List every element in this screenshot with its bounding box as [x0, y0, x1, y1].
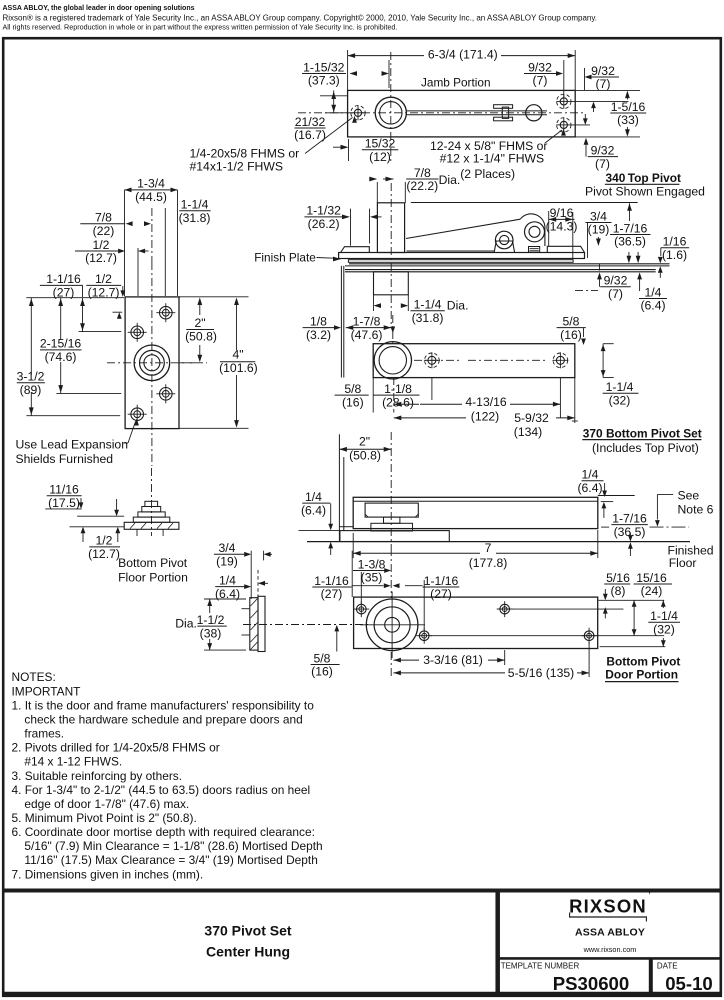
door portion dims left	[351, 551, 353, 597]
hole left extension	[56, 392, 121, 394]
svg-text:1-1/4: 1-1/4	[650, 609, 678, 623]
svg-text:(8): (8)	[611, 584, 626, 598]
floor plate center hole middle	[140, 350, 165, 375]
svg-text:1/4: 1/4	[582, 468, 599, 482]
plate top extension right	[179, 296, 249, 298]
svg-text:(37.3): (37.3)	[308, 74, 340, 88]
svg-text:2": 2"	[194, 316, 205, 330]
dimension 1-1/4 (31.8) plate	[179, 198, 211, 225]
svg-text:05-10: 05-10	[665, 973, 713, 994]
svg-text:’: ’	[649, 891, 651, 902]
svg-text:Use Lead Expansion: Use Lead Expansion	[16, 437, 128, 451]
floor portion base hatches	[130, 523, 135, 529]
svg-text:1-7/8: 1-7/8	[353, 314, 381, 328]
dimension 1-3/8 (35)	[353, 557, 386, 584]
jamb plate centerline horizontal	[298, 112, 583, 114]
door portion bearing outer	[366, 599, 418, 651]
svg-text:#14 x 1-12 FHWS.: #14 x 1-12 FHWS.	[24, 755, 122, 769]
plate top extension line left	[26, 297, 124, 299]
svg-text:5/16: 5/16	[606, 571, 630, 585]
svg-text:5-5/16 (135): 5-5/16 (135)	[508, 666, 574, 680]
svg-text:370 Bottom Pivot Set: 370 Bottom Pivot Set	[583, 426, 702, 440]
dimension 1-7/16 (36.5) right	[611, 511, 647, 538]
svg-text:(19): (19)	[216, 555, 238, 569]
svg-text:1-7/16: 1-7/16	[612, 511, 647, 525]
svg-text:(101.6): (101.6)	[219, 361, 258, 375]
dimension 1-15/32 (37.3)	[302, 60, 346, 87]
svg-text:(Includes Top Pivot): (Includes Top Pivot)	[592, 441, 699, 455]
svg-text:1-3/4: 1-3/4	[137, 177, 165, 191]
svg-text:1/2: 1/2	[95, 272, 112, 286]
340 plate right end cap	[547, 246, 584, 252]
svg-text:(7): (7)	[608, 287, 623, 301]
svg-text:(31.8): (31.8)	[179, 211, 211, 225]
svg-text:(177.8): (177.8)	[469, 556, 508, 570]
svg-text:(1.6): (1.6)	[662, 248, 687, 262]
floor plate center hole outer	[134, 345, 170, 381]
svg-text:PS30600: PS30600	[553, 973, 630, 994]
svg-text:1/16: 1/16	[663, 235, 687, 249]
dimension 15/32 (12)	[362, 137, 399, 164]
dimension 1/4 (6.4) door top right	[577, 468, 603, 495]
svg-text:(28.6): (28.6)	[382, 395, 414, 409]
dimension 9/32 (7) mid	[600, 274, 631, 301]
svg-text:IMPORTANT: IMPORTANT	[12, 684, 81, 698]
svg-text:(12): (12)	[369, 150, 391, 164]
svg-text:1-1/4: 1-1/4	[181, 198, 209, 212]
svg-text:(27): (27)	[321, 587, 343, 601]
svg-text:9/32: 9/32	[591, 64, 615, 78]
dimension 7/8 (22.2)	[406, 166, 438, 193]
svg-text:9/32: 9/32	[604, 274, 628, 288]
svg-text:1/4-20x5/8 FHMS or: 1/4-20x5/8 FHMS or	[190, 146, 300, 160]
floor portion base bottom extension	[70, 526, 125, 528]
spindle body	[250, 598, 258, 650]
svg-text:4-13/16: 4-13/16	[465, 395, 507, 409]
spindle dashed edge	[257, 570, 259, 596]
340 plate left end cap	[341, 247, 370, 253]
svg-text:Dia.: Dia.	[447, 299, 469, 313]
floor plate centerline	[151, 262, 153, 466]
dimension 1/4 (6.4) floor left	[301, 490, 330, 517]
svg-text:DATE: DATE	[657, 962, 678, 971]
svg-text:1-1/4: 1-1/4	[606, 380, 634, 394]
floor portion steps	[133, 517, 170, 522]
svg-text:(3.2): (3.2)	[306, 328, 331, 342]
door top right tick arrow	[601, 501, 613, 503]
dimension 1/8 (3.2)	[303, 314, 335, 341]
dimension 15/16 (24)	[634, 571, 673, 598]
340 door top line	[345, 269, 656, 271]
door portion centerline bottom extension	[390, 652, 392, 676]
svg-text:All rights reserved. Reproduct: All rights reserved. Reproduction in who…	[3, 22, 398, 31]
svg-text:15/16: 15/16	[636, 571, 667, 585]
dimension 1-1/4 (32) plan right	[603, 380, 639, 407]
screw bobbin body	[502, 107, 508, 118]
svg-text:9/32: 9/32	[528, 60, 552, 74]
svg-text:1/4: 1/4	[645, 285, 662, 299]
dimension 9/32 (7) jamb top middle	[524, 60, 556, 87]
svg-text:ASSA ABLOY: ASSA ABLOY	[575, 926, 645, 938]
dim 3-1/2 (89)	[30, 298, 32, 375]
svg-text:Shields Furnished: Shields Furnished	[16, 452, 114, 466]
340 valve block	[529, 247, 540, 253]
svg-text:1-15/32: 1-15/32	[303, 60, 345, 74]
door bottom outline	[353, 497, 598, 528]
dimension 1/2 (12.7) plate	[75, 238, 118, 265]
svg-text:1-1/2: 1-1/2	[197, 613, 225, 627]
plate center extension right	[179, 362, 207, 364]
door portion screw right	[584, 631, 594, 641]
dimension 1-1/16 (27) plate	[40, 272, 83, 299]
floor portion base top extension	[77, 515, 124, 517]
RIXSON underline	[569, 916, 647, 918]
svg-text:7/8: 7/8	[95, 211, 112, 225]
svg-text:(24): (24)	[641, 584, 663, 598]
svg-text:frames.: frames.	[24, 727, 64, 741]
floor portion hidden lines	[136, 529, 138, 536]
svg-text:11/16: 11/16	[49, 483, 79, 497]
svg-text:(31.8): (31.8)	[412, 311, 444, 325]
bottom pivot bearing inner	[379, 347, 406, 374]
svg-text:(36.5): (36.5)	[614, 235, 646, 249]
svg-text:5/16" (7.9) Min Clearance = 1-: 5/16" (7.9) Min Clearance = 1-1/8" (28.6…	[24, 839, 322, 853]
svg-text:1-5/16: 1-5/16	[611, 100, 646, 114]
bottom pivot floor portion centerline	[151, 468, 153, 536]
dimension 1-1/2 (38)	[197, 613, 227, 640]
dimension 1-7/16 (36.5) top	[610, 221, 651, 248]
spindle centerline	[243, 624, 370, 626]
floor plate hole left	[131, 326, 144, 339]
dimension 1/16 (1.6)	[661, 235, 689, 262]
svg-text:check the hardware schedule an: check the hardware schedule and prepare …	[24, 712, 302, 726]
svg-text:www.rixson.com: www.rixson.com	[583, 945, 637, 954]
svg-text:(6.4): (6.4)	[640, 299, 665, 313]
plan centerline horizontal dashes	[414, 359, 460, 361]
svg-text:(33): (33)	[617, 113, 639, 127]
title block bottom thick border	[3, 992, 721, 997]
floor plate hole bottom right	[160, 388, 173, 401]
svg-text:Center Hung: Center Hung	[206, 943, 290, 959]
title block horizontal divider	[498, 957, 721, 960]
svg-text:(7): (7)	[596, 77, 611, 91]
dim 1-1/16 left	[82, 286, 84, 297]
svg-text:1/2: 1/2	[96, 534, 113, 548]
svg-text:Finish Plate: Finish Plate	[254, 250, 316, 264]
svg-text:Rixson® is a registered tradem: Rixson® is a registered trademark of Yal…	[3, 13, 597, 22]
svg-text:(44.5): (44.5)	[135, 190, 167, 204]
svg-text:340 Top Pivot: 340 Top Pivot	[606, 171, 682, 185]
svg-text:1-3/8: 1-3/8	[358, 557, 386, 571]
svg-text:(74.6): (74.6)	[45, 350, 77, 364]
dimension 1-5/16 (33)	[610, 100, 646, 127]
svg-text:edge of door 1-7/8" (47.6) max: edge of door 1-7/8" (47.6) max.	[24, 797, 189, 811]
svg-text:1-1/16: 1-1/16	[424, 574, 459, 588]
dim 2-15/16 (74.6)	[60, 298, 62, 340]
svg-text:4. For 1-3/4" to 2-1/2" (44.5: 4. For 1-3/4" to 2-1/2" (44.5 to 63.5) d…	[12, 783, 311, 797]
dimension arrows 1-5/16	[625, 91, 630, 99]
340 roller mount	[494, 241, 514, 253]
screw bobbin bottom plate	[494, 117, 513, 121]
door portion centerline top	[390, 548, 392, 598]
bottom pivot base block	[371, 523, 413, 531]
dimension 9/32 (7) jamb top right	[587, 64, 619, 91]
door portion top edge extension	[599, 599, 665, 601]
door portion bearing inner	[385, 617, 400, 632]
svg-text:(7): (7)	[595, 157, 610, 171]
floor plate hole bottom left	[131, 408, 144, 421]
svg-text:1-1/32: 1-1/32	[306, 204, 341, 218]
door portion bearing middle	[374, 607, 410, 643]
svg-text:3/4: 3/4	[590, 209, 607, 223]
dimension 5/16 (8)	[604, 571, 630, 598]
svg-text:See: See	[678, 489, 700, 503]
3/4 bracket and arrow	[587, 223, 589, 259]
door portion screw right of bearing	[419, 631, 429, 641]
340 arm bottom line	[407, 250, 495, 252]
bottom pivot mortised body	[365, 503, 418, 517]
svg-text:(47.6): (47.6)	[351, 328, 383, 342]
svg-text:(35): (35)	[361, 571, 383, 585]
340 arm diagonal	[406, 219, 520, 238]
svg-text:12-24 x 5/8" FHMS or: 12-24 x 5/8" FHMS or	[430, 139, 547, 153]
svg-text:ASSA ABLOY, the global leader: ASSA ABLOY, the global leader in door op…	[3, 5, 195, 12]
spindle flange	[258, 596, 265, 651]
dimension 1-1/4 (32) door portion	[648, 609, 680, 636]
dimension 3-3/16 (81)	[393, 659, 419, 661]
svg-text:(22.2): (22.2)	[406, 179, 438, 193]
svg-text:Dia.: Dia.	[439, 173, 461, 187]
dimension arrow 21/32	[333, 90, 335, 112]
svg-text:370 Pivot Set: 370 Pivot Set	[204, 923, 291, 939]
dim 1/2 upper right	[113, 311, 123, 313]
plate bottom extension right	[179, 427, 249, 429]
svg-text:5. Minimum Pivot Point is 2" (: 5. Minimum Pivot Point is 2" (50.8).	[12, 811, 197, 825]
svg-text:3. Suitable reinforcing by oth: 3. Suitable reinforcing by others.	[12, 769, 183, 783]
svg-text:(12.7): (12.7)	[88, 547, 120, 561]
door portion bottom edge extension	[600, 646, 666, 648]
svg-text:2. Pivots drilled for 1/4-20x5: 2. Pivots drilled for 1/4-20x5/8 FHMS or	[12, 741, 220, 755]
dash line door bottom right	[601, 526, 609, 528]
jamb plate outline	[348, 90, 576, 136]
svg-text:Bottom Pivot: Bottom Pivot	[118, 556, 188, 570]
svg-text:(32): (32)	[653, 623, 675, 637]
dimension 2-15/16 (74.6)	[40, 337, 82, 364]
bottom pivot body corner steps	[365, 514, 368, 517]
finished floor line	[307, 541, 690, 543]
dimension 1/2 (12.7) floor portion	[88, 534, 120, 561]
dimension 1-1/16 (27) left	[312, 574, 351, 601]
screw bobbin top plate	[494, 105, 513, 109]
svg-text:6. Coordinate door mortise dep: 6. Coordinate door mortise depth with re…	[12, 825, 315, 839]
dimension 21/32 (16.7)	[294, 115, 326, 142]
svg-text:(16.7): (16.7)	[294, 128, 326, 142]
svg-text:1-1/8: 1-1/8	[384, 382, 412, 396]
bottom pivot set plate	[373, 344, 575, 378]
svg-text:#12 x 1-1/4" FHWS: #12 x 1-1/4" FHWS	[440, 152, 545, 166]
pivot shaft	[406, 110, 547, 112]
dimension 1-1/4 (31.8)	[411, 298, 445, 325]
svg-text:(27): (27)	[430, 587, 452, 601]
340 roller small	[495, 231, 513, 249]
svg-text:Jamb Portion: Jamb Portion	[421, 76, 491, 90]
svg-text:Dia.: Dia.	[175, 616, 197, 630]
dimension 1-1/16 (27) mid	[423, 574, 460, 601]
svg-text:(89): (89)	[20, 383, 42, 397]
svg-text:(7): (7)	[533, 74, 548, 88]
floor plate center hole inner	[144, 355, 160, 371]
1-1/32 extension and arrows	[350, 209, 352, 246]
dimension 5/8 (16) plan bottom left	[335, 382, 369, 409]
svg-text:15/32: 15/32	[365, 137, 396, 151]
svg-text:(16): (16)	[560, 328, 582, 342]
svg-text:5/8: 5/8	[344, 382, 361, 396]
svg-text:7. Dimensions given in inches: 7. Dimensions given in inches (mm).	[12, 867, 204, 881]
jamb plate centerline vertical through pivot circle	[390, 52, 392, 162]
svg-text:(6.4): (6.4)	[577, 481, 602, 495]
plate bottom-left hole extension	[26, 415, 120, 417]
svg-text:Floor: Floor	[669, 556, 697, 570]
jamb plate bottom edge extension right	[575, 136, 640, 138]
340 frame edge lines	[340, 266, 342, 378]
pivot bearing circle inner	[380, 102, 402, 124]
340 door pivot body	[374, 272, 409, 295]
leader line 1/4-20 screws to left screw	[305, 118, 353, 154]
340 door section break dash	[575, 289, 598, 291]
svg-text:Pivot Shown Engaged: Pivot Shown Engaged	[585, 184, 705, 198]
dimension 1-1/32 (26.2)	[304, 204, 342, 231]
jamb screw extension lines right	[572, 100, 629, 102]
template number cell divider	[649, 958, 653, 994]
svg-text:7/8: 7/8	[414, 166, 431, 180]
svg-text:3-3/16 (81): 3-3/16 (81)	[423, 653, 483, 667]
340 finish plate surface extension	[349, 263, 670, 265]
left screw dashed circle	[351, 106, 365, 120]
door portion screw top left	[357, 604, 367, 614]
svg-text:Door Portion: Door Portion	[605, 667, 678, 681]
pivot bearing circle outer	[375, 97, 406, 128]
svg-text:3/4: 3/4	[219, 541, 236, 555]
dimension 1/2 (12.7) plate 2	[86, 272, 121, 299]
dimension 11/16 (17.5)	[47, 483, 82, 510]
340 post top extension line	[411, 202, 638, 204]
svg-text:(50.8): (50.8)	[349, 449, 381, 463]
shaft collar circle	[526, 105, 542, 121]
plate centerline upper dash	[151, 208, 153, 262]
svg-text:(16): (16)	[342, 395, 364, 409]
floor plate center hole crosshair	[107, 362, 196, 364]
svg-text:5/8: 5/8	[563, 314, 580, 328]
340 finish plate	[348, 260, 573, 263]
spindle detail verticals	[250, 551, 252, 599]
svg-text:1/4: 1/4	[305, 490, 322, 504]
svg-text:3-1/2: 3-1/2	[17, 370, 45, 384]
leader line 12-24 screws to right screw	[545, 130, 562, 143]
svg-text:7: 7	[485, 541, 492, 555]
plan vertical centerline top	[392, 315, 394, 345]
dimension 1/4 (6.4) spindle	[215, 573, 246, 600]
svg-text:(32): (32)	[609, 394, 631, 408]
svg-text:#14x1-1/2 FHWS: #14x1-1/2 FHWS	[190, 159, 283, 173]
dimension 5/8 (16) plan top right	[557, 314, 586, 341]
svg-text:5/8: 5/8	[314, 651, 331, 665]
plan screw 1	[428, 356, 436, 364]
svg-text:RIXSON: RIXSON	[569, 895, 647, 916]
svg-text:1/4: 1/4	[219, 573, 236, 587]
dimension 5-5/16 (135)	[393, 672, 505, 674]
340 jamb post	[377, 203, 404, 253]
plan screw 2	[556, 356, 564, 364]
340 arm arc over roller	[520, 214, 545, 246]
right screw hole upper	[560, 98, 567, 105]
svg-text:(17.5): (17.5)	[48, 496, 80, 510]
dimension 9/32 (7) jamb lower right	[588, 143, 618, 170]
spindle extension lines	[376, 182, 378, 203]
svg-text:5-9/32: 5-9/32	[514, 411, 549, 425]
svg-text:11/16" (17.5) Max Clearance =: 11/16" (17.5) Max Clearance = 3/4" (19) …	[24, 853, 317, 867]
svg-text:(22): (22)	[93, 224, 115, 238]
jamb plate top edge extension right	[575, 89, 640, 91]
spindle ticks	[242, 608, 251, 610]
dimension 5/8 (16) spindle right	[311, 651, 340, 678]
svg-text:1. It is the door and frame ma: 1. It is the door and frame manufacturer…	[12, 698, 315, 712]
dimension 3/4 (19) spindle	[214, 541, 244, 568]
dimension 1-3/4 (44.5)	[125, 177, 178, 204]
door portion screw middle	[500, 604, 510, 614]
svg-text:(134): (134)	[514, 425, 542, 439]
spindle body hatches	[251, 599, 258, 607]
svg-text:(38): (38)	[200, 626, 222, 640]
svg-text:(16): (16)	[311, 665, 333, 679]
bottom pivot spindle	[384, 517, 400, 523]
svg-text:1/2: 1/2	[93, 238, 110, 252]
svg-text:TEMPLATE NUMBER: TEMPLATE NUMBER	[501, 962, 580, 971]
svg-text:1-1/16: 1-1/16	[314, 574, 349, 588]
bottom pivot bearing outer	[374, 342, 411, 379]
svg-text:Note 6: Note 6	[678, 502, 714, 516]
dimension 3-1/2 (89)	[17, 370, 45, 397]
svg-text:1-1/4: 1-1/4	[414, 298, 442, 312]
dimension 1-7/8 (47.6)	[346, 314, 391, 341]
floor plate outline	[125, 297, 179, 429]
door portion bearing crosshair	[360, 624, 425, 626]
dimension 9/16 (14.3)	[546, 206, 578, 233]
frame bottom line	[339, 526, 353, 528]
svg-text:(122): (122)	[471, 410, 499, 424]
svg-text:(50.8): (50.8)	[185, 330, 217, 344]
svg-text:(19): (19)	[588, 223, 610, 237]
svg-text:9/32: 9/32	[591, 143, 615, 157]
svg-text:(26.2): (26.2)	[308, 217, 340, 231]
svg-text:(6.4): (6.4)	[301, 503, 326, 517]
plan centerline bottom extension	[393, 377, 395, 413]
svg-text:1/8: 1/8	[310, 314, 327, 328]
dimension 1-1/8 (28.6)	[373, 382, 419, 409]
door bottom inner top line	[353, 500, 598, 502]
svg-text:1-7/16: 1-7/16	[613, 221, 648, 235]
title block top border	[3, 889, 721, 893]
dimension 7/8 (22) plate	[80, 211, 125, 238]
svg-text:Bottom Pivot: Bottom Pivot	[606, 654, 680, 668]
340 vertical centerline	[390, 183, 392, 327]
floor portion base	[124, 522, 179, 529]
svg-text:Floor Portion: Floor Portion	[118, 571, 188, 585]
left screw hole	[354, 109, 361, 116]
340 roller large	[525, 222, 545, 242]
floor plate	[340, 531, 449, 542]
svg-text:4": 4"	[232, 348, 243, 362]
bottom side view centerline	[390, 432, 392, 548]
